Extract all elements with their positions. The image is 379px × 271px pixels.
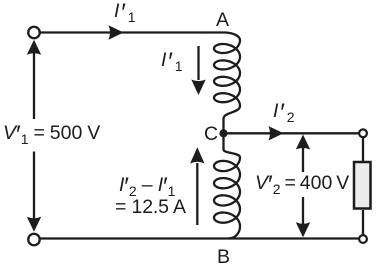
current arrow I'1 inside winding (down)	[191, 46, 205, 95]
wire middle (C to load)	[226, 132, 359, 134]
terminal bottom-left	[28, 234, 40, 246]
wire top (source to A)	[41, 31, 207, 33]
resistor load	[354, 162, 371, 209]
wire load top	[362, 138, 364, 161]
node C (junction dot)	[219, 129, 227, 137]
label I'1 (winding current)	[161, 51, 184, 71]
label A	[216, 11, 229, 31]
terminal top-right	[359, 129, 367, 137]
voltage arrow V'1 (double-headed)	[27, 40, 41, 232]
label V'2 = 400 V	[255, 174, 349, 194]
arrowhead I'1 on top wire	[109, 25, 124, 39]
label B	[217, 248, 230, 268]
autotransformer winding section C-B	[214, 136, 240, 239]
autotransformer winding section A-C	[205, 33, 240, 132]
label I'2 - I'1 = 12.5 A	[119, 176, 190, 215]
arrowhead I'2 on middle wire	[269, 126, 284, 140]
terminal top-left	[28, 27, 40, 39]
wire load bottom	[362, 210, 364, 235]
current arrow I'2-I'1 (up)	[190, 147, 204, 225]
terminal bottom-right	[359, 235, 367, 243]
label C	[204, 125, 218, 145]
voltage arrow V'2 (double-headed)	[296, 135, 310, 238]
label I'2	[273, 102, 296, 122]
label V'1 = 500 V	[3, 124, 100, 144]
wire bottom (source to B to load)	[41, 237, 359, 239]
label I'1 (top wire current)	[114, 2, 137, 22]
